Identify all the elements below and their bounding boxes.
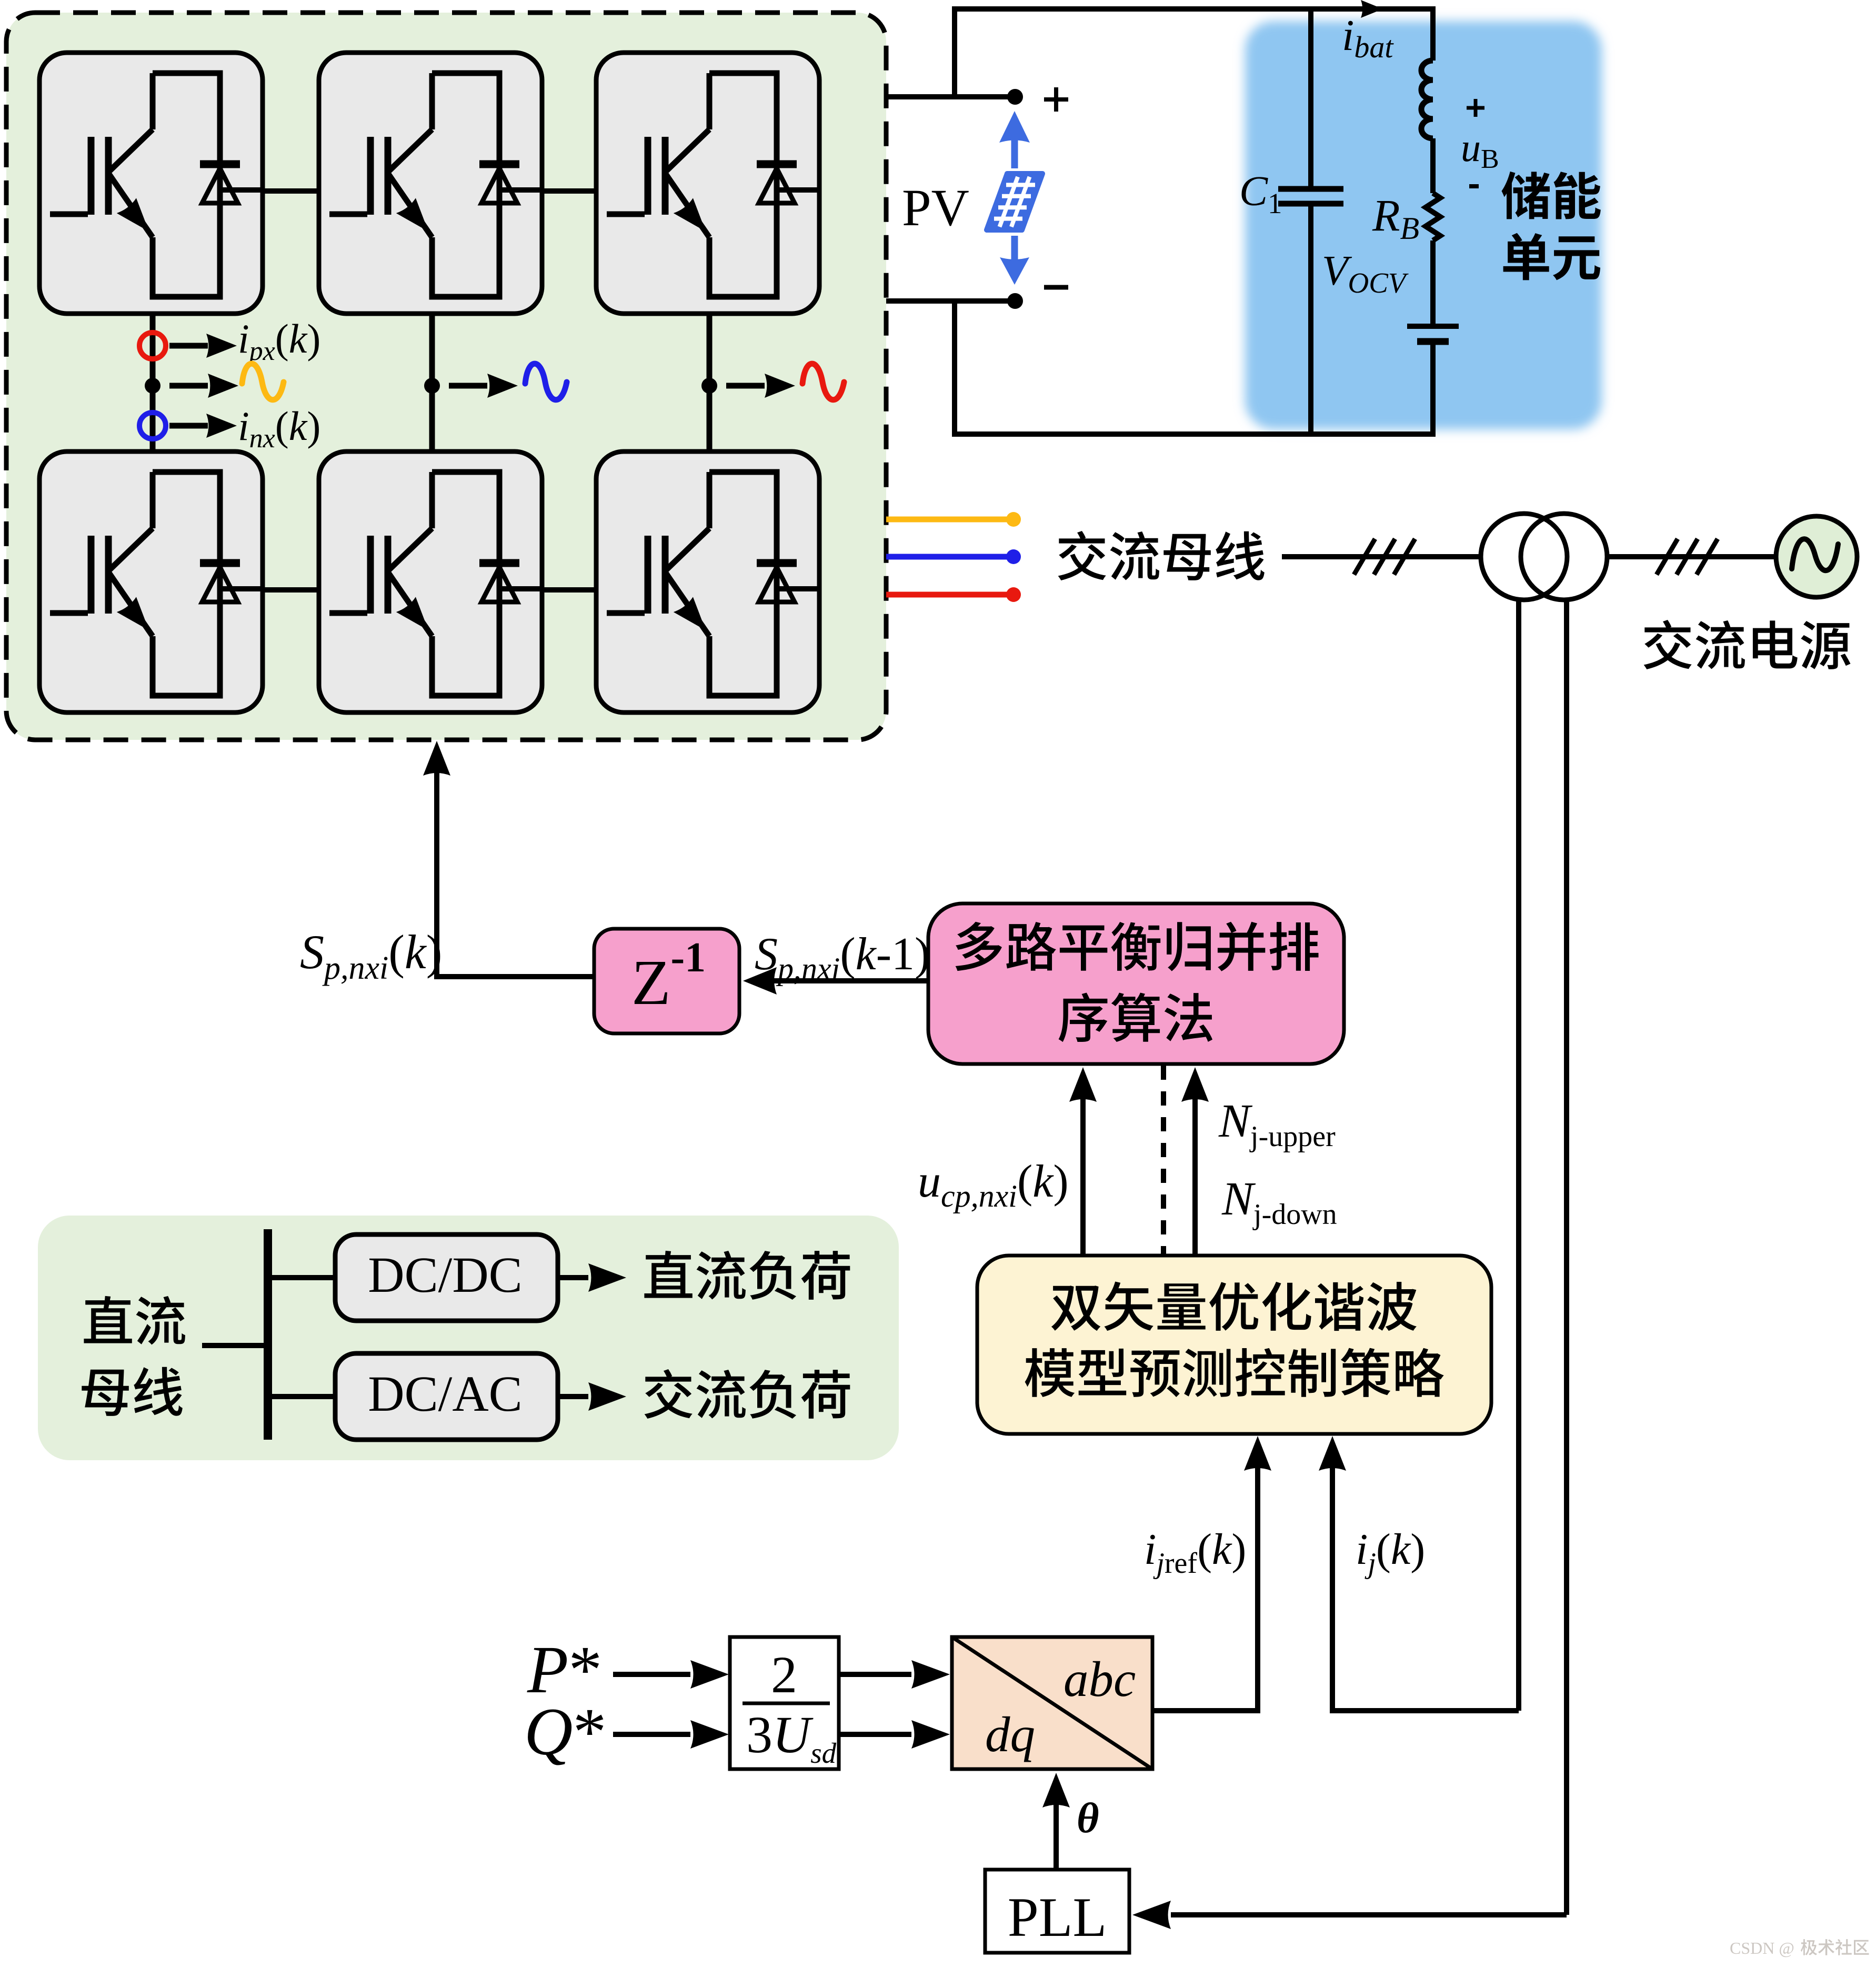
arrow u_cp into sorting box xyxy=(1069,1067,1097,1257)
transformer winding 2 xyxy=(1521,514,1607,600)
wire S_p horizontal xyxy=(437,974,594,979)
PV down arrow blue xyxy=(1000,236,1029,285)
plus sign battery xyxy=(1467,99,1484,117)
gain block 2/3Usd xyxy=(730,1637,839,1769)
svg-text:dq: dq xyxy=(985,1706,1035,1762)
label 交流母线 xyxy=(1058,531,1265,580)
arrow to ac load xyxy=(558,1382,626,1411)
PLL block xyxy=(985,1870,1129,1953)
node phase midpoint col2 xyxy=(424,378,440,394)
PV up arrow blue xyxy=(999,111,1030,168)
wire battery to bottom bus xyxy=(1430,342,1436,434)
DC/DC converter box xyxy=(335,1234,558,1321)
arrow i_j into MPC xyxy=(1319,1436,1346,1471)
capacitor C1 branch wires xyxy=(1308,9,1313,434)
wire row1 SM2-SM3 xyxy=(499,188,620,194)
transformer winding 1 xyxy=(1481,514,1567,600)
svg-text:PV: PV xyxy=(902,178,969,237)
IGBT half-bridge module SM1 xyxy=(39,53,263,314)
DC/AC converter box xyxy=(335,1353,558,1440)
label 母线 (dc) xyxy=(82,1367,182,1416)
wire PV minus xyxy=(886,298,1015,304)
arrow Q* xyxy=(613,1720,729,1749)
IGBT half-bridge module SM2 xyxy=(319,53,542,314)
capacitor C1 plates xyxy=(1278,189,1343,204)
phase-b sine blue xyxy=(525,364,567,400)
wire col2 vertical xyxy=(429,297,435,469)
label 双矢量优化谐波 xyxy=(1051,1282,1417,1331)
phase line yellow xyxy=(886,512,1021,527)
blue energy-storage unit box xyxy=(1245,21,1602,429)
fraction bar xyxy=(743,1702,830,1705)
IGBT half-bridge module SM5 xyxy=(319,451,542,712)
wire row1 SM1-SM2 xyxy=(220,188,343,194)
IGBT half-bridge module SM3 xyxy=(596,53,819,314)
abc/dq transform block xyxy=(952,1637,1152,1769)
arrow gain to abc/dq lower xyxy=(839,1720,950,1749)
inductor coil xyxy=(1421,61,1433,138)
wire coil to resistor xyxy=(1430,138,1436,193)
label 交流电源 xyxy=(1644,620,1851,669)
wire resistor to battery xyxy=(1430,240,1436,326)
wire to DC/DC xyxy=(268,1275,335,1280)
wire bottom dc bus xyxy=(952,431,1436,437)
svg-text:θ: θ xyxy=(1077,1794,1099,1842)
wire transformer to source xyxy=(1607,554,1777,559)
resistor R_B zigzag xyxy=(1426,193,1440,240)
battery symbol V_OCV source xyxy=(1407,326,1459,342)
label 多路平衡归并排 xyxy=(956,922,1319,971)
dc load green box xyxy=(38,1216,899,1460)
sorting algorithm box xyxy=(928,903,1344,1064)
minus sign xyxy=(1044,285,1068,290)
wire transformer left vertical (i_j tap) xyxy=(1516,599,1521,1711)
IGBT half-bridge module SM4 xyxy=(39,451,263,712)
label 储能单元 line1 xyxy=(1501,172,1600,219)
arrow N_j into sorting box xyxy=(1181,1067,1209,1257)
three-phase slashes right xyxy=(1657,539,1718,575)
phase-c sine red xyxy=(802,364,844,400)
label 交流负荷 xyxy=(645,1369,850,1419)
three-phase slashes left xyxy=(1354,539,1415,575)
wire vertical minus to bottom bus xyxy=(952,301,957,437)
label 序算法 xyxy=(1059,993,1212,1042)
svg-text:PLL: PLL xyxy=(1008,1886,1107,1948)
wire top dc bus xyxy=(952,6,1436,12)
svg-text:2: 2 xyxy=(771,1645,797,1704)
label 储能单元 line2 xyxy=(1503,233,1600,280)
dc bus bar xyxy=(264,1229,272,1440)
svg-text:ij(k): ij(k) xyxy=(1356,1525,1425,1580)
label 模型预测控制策略 xyxy=(1025,1348,1444,1397)
arrow sorting to Z^-1 xyxy=(743,967,928,995)
arrow P* xyxy=(613,1660,729,1689)
plus sign xyxy=(1044,87,1068,112)
wire PV plus xyxy=(886,94,1015,99)
wire dc bus lead xyxy=(202,1343,268,1348)
PV panel icon xyxy=(987,174,1042,230)
wire grid to PLL xyxy=(1171,1912,1567,1917)
MPC strategy box (yellow) xyxy=(977,1256,1491,1434)
converter dashed box (green) xyxy=(6,13,886,740)
phase line blue xyxy=(886,549,1021,564)
arrow phase output col3 xyxy=(726,374,795,398)
svg-text:Q*: Q* xyxy=(524,1694,606,1769)
arrow theta PLL to dq xyxy=(1042,1773,1070,1870)
wire vertical plus to top bus xyxy=(952,6,957,97)
wire row2 SM4-SM5 xyxy=(220,587,343,593)
inductor branch top wire xyxy=(1430,9,1436,61)
ac source sine xyxy=(1792,539,1838,570)
label 直流 xyxy=(84,1296,185,1345)
ac source circle xyxy=(1776,516,1857,597)
arrow i_bat xyxy=(1361,0,1383,18)
arrow i_nx xyxy=(169,414,237,438)
wire to DC/AC xyxy=(268,1394,335,1399)
wire transformer right vertical (PLL tap) xyxy=(1564,599,1569,1915)
svg-text:CSDN @: CSDN @ xyxy=(1730,1939,1794,1957)
arrow into PLL xyxy=(1132,1901,1171,1929)
node PV+ xyxy=(1007,89,1023,105)
svg-text:abc: abc xyxy=(1064,1651,1136,1707)
delay block Z^-1 xyxy=(594,929,739,1033)
wire row2 SM5-SM6 xyxy=(499,587,620,593)
svg-text:DC/AC: DC/AC xyxy=(368,1365,522,1422)
wire col1 vertical xyxy=(150,297,156,469)
node phase midpoint col1 xyxy=(145,378,160,394)
IGBT half-bridge module SM6 xyxy=(596,451,819,712)
arrow phase output col1 xyxy=(169,374,238,398)
wire ac bus to transformer xyxy=(1282,554,1482,559)
arrow S_p,nxi(k) to converter xyxy=(423,741,450,979)
phase-a sine yellow xyxy=(242,364,284,400)
arrow i_px xyxy=(169,334,237,358)
wire col3 vertical xyxy=(707,297,713,469)
arrow i_jref into MPC xyxy=(1244,1436,1271,1471)
minus sign battery xyxy=(1469,184,1479,188)
blue measurement circle lower arm xyxy=(139,413,166,439)
arrow to dc load xyxy=(558,1263,626,1292)
svg-text:DC/DC: DC/DC xyxy=(368,1247,522,1303)
arrow phase output col2 xyxy=(449,374,518,398)
wire abc/dq output xyxy=(1152,1468,1258,1711)
node phase midpoint col3 xyxy=(701,378,717,394)
label 直流负荷 xyxy=(644,1251,850,1300)
wire i_j feedback xyxy=(1332,1468,1519,1711)
red measurement circle upper arm xyxy=(139,333,166,359)
node PV- xyxy=(1007,293,1023,309)
arrow gain to abc/dq upper xyxy=(839,1660,950,1689)
dashed connection sorting-MPC xyxy=(1161,1066,1166,1257)
phase line red xyxy=(886,587,1021,602)
